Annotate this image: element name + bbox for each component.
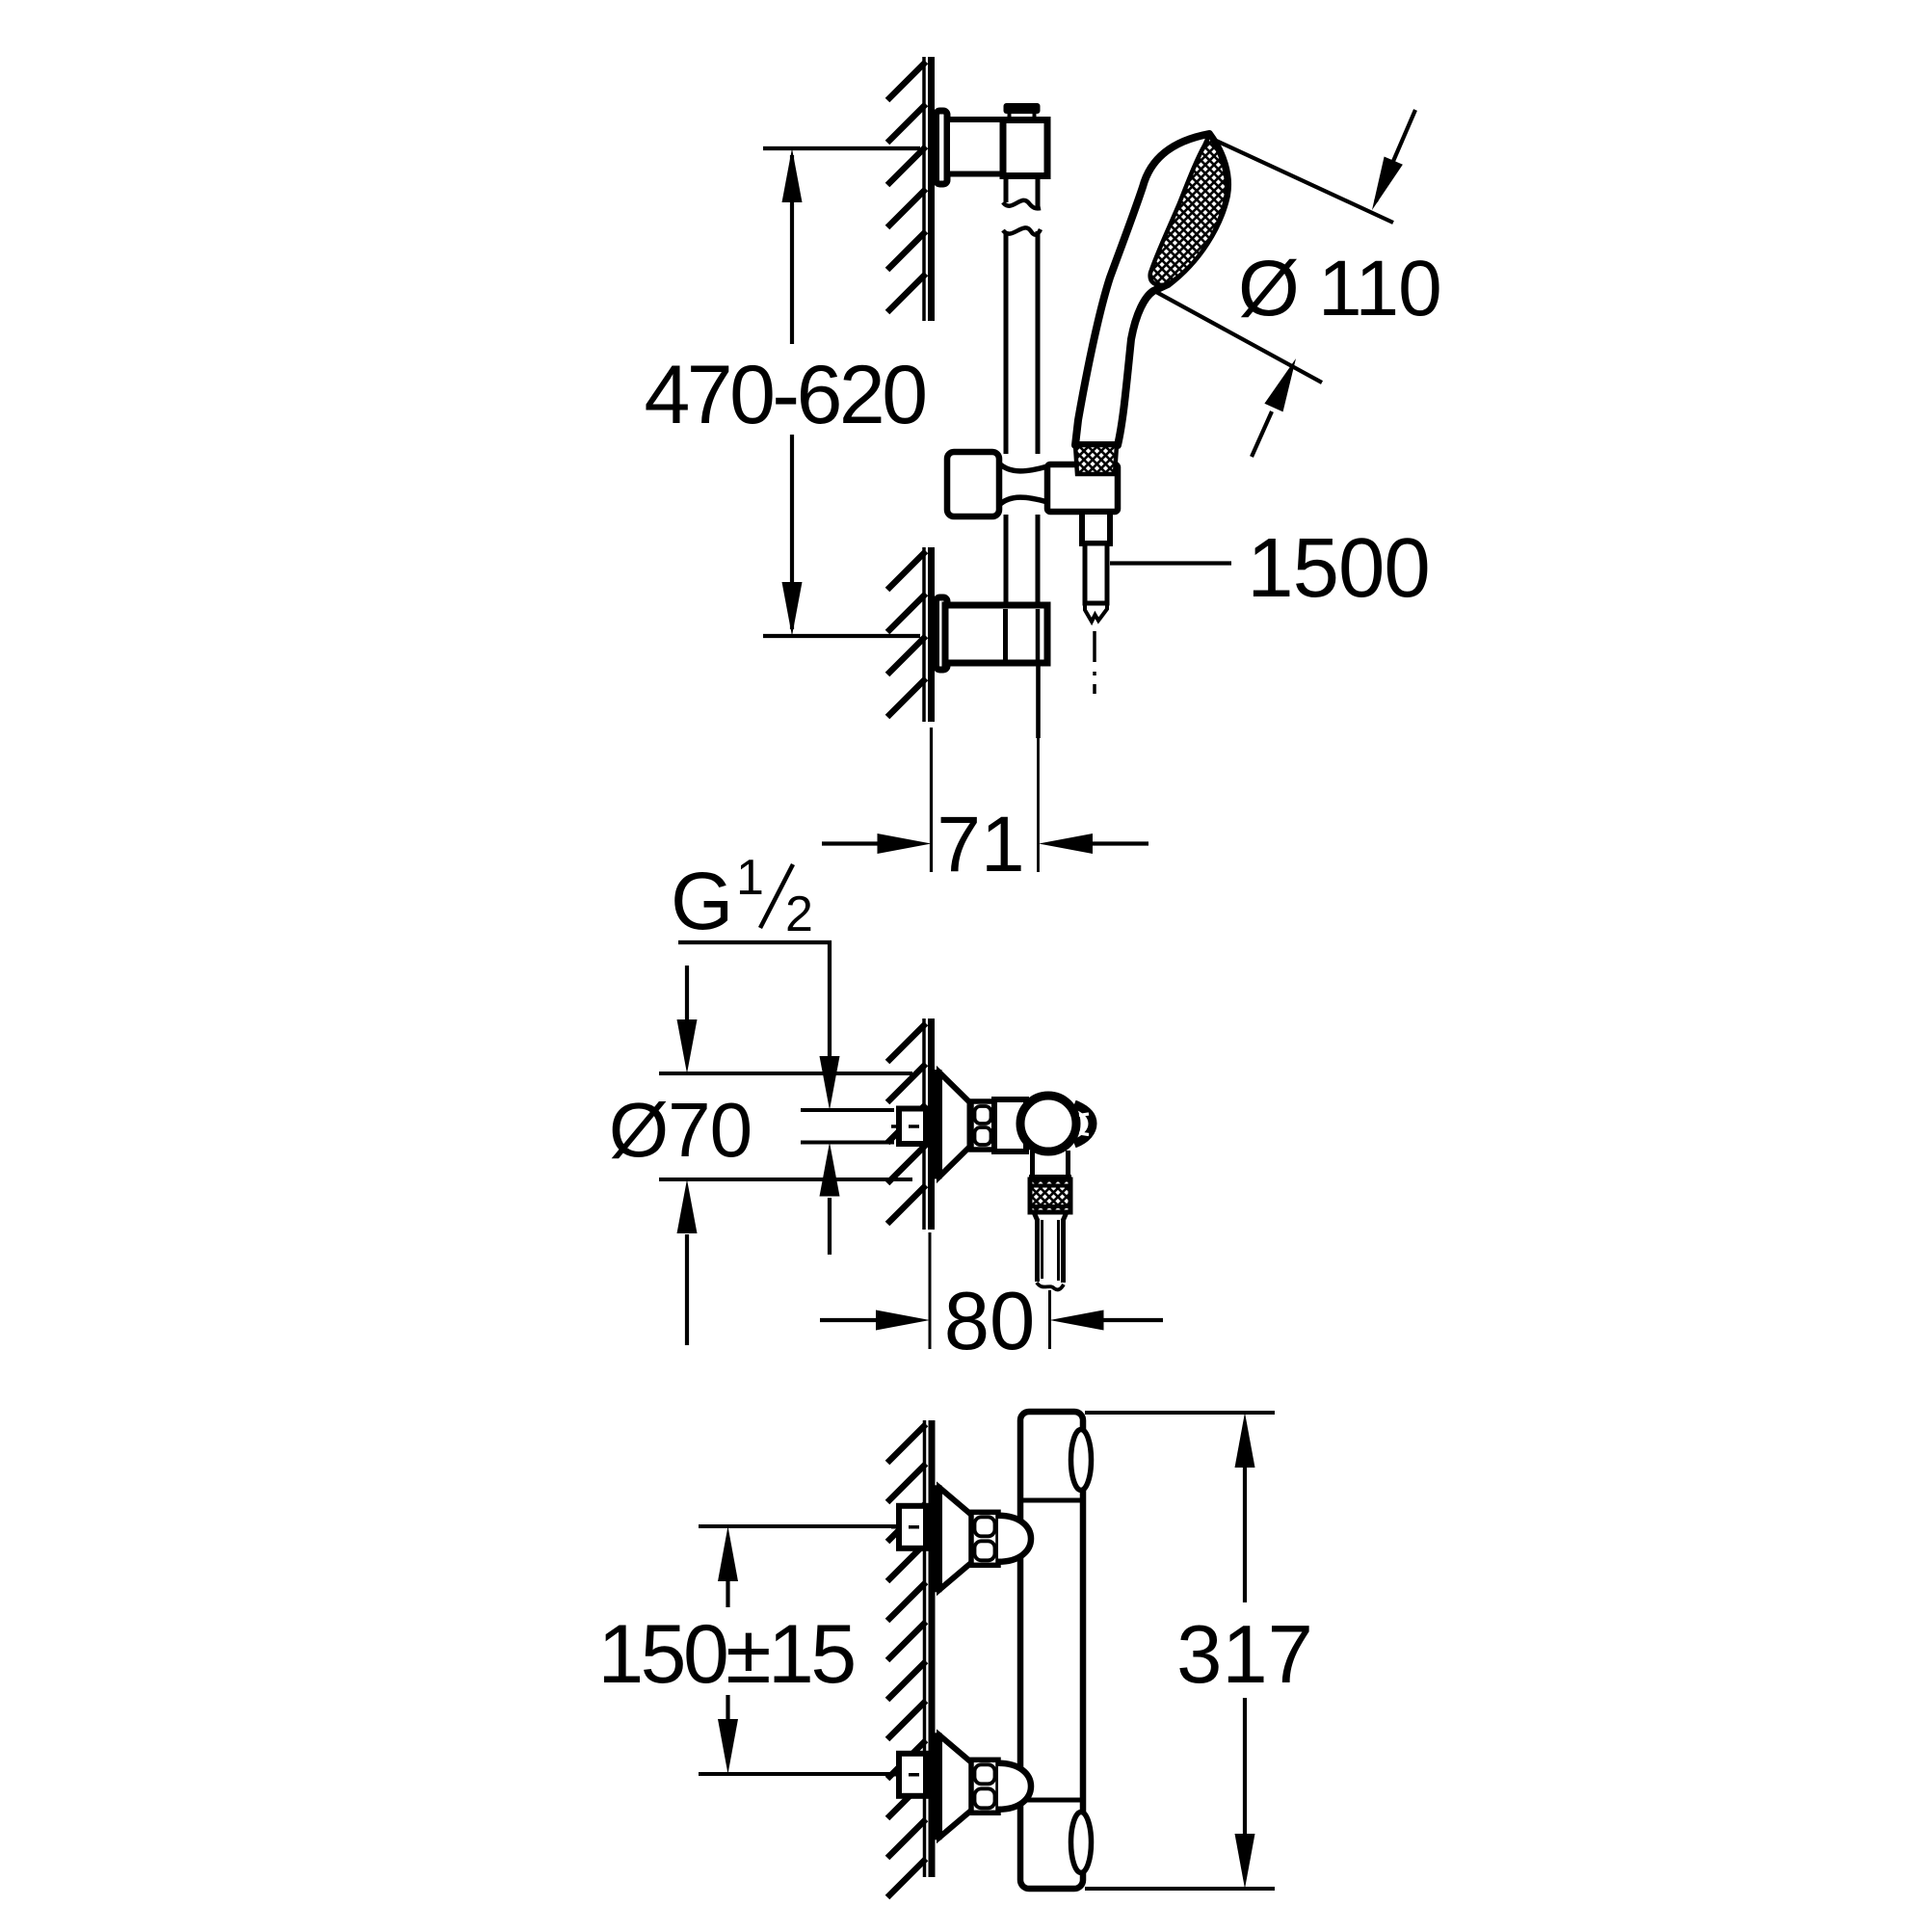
dim 150 extension line bottom — [699, 1772, 896, 1776]
valve body (side view) — [994, 1099, 1026, 1151]
rail tube lower end — [1036, 661, 1041, 738]
svg-text:150±15: 150±15 — [597, 1608, 854, 1701]
dimension text 317 — [1176, 1609, 1313, 1701]
thermostat body top cap line — [1020, 1498, 1083, 1503]
rail tube segment below clamp — [1003, 176, 1041, 209]
supply connection top (front view) — [891, 1488, 1031, 1590]
dim 150 arrow up — [718, 1526, 738, 1607]
dim 150 arrow down — [718, 1695, 738, 1774]
slider holder knob — [947, 452, 999, 516]
svg-text:470-620: 470-620 — [644, 349, 925, 441]
lower bracket body — [945, 605, 1047, 663]
dimension 470-620 dimension line lower — [790, 435, 794, 629]
dim 70 arrow upper — [677, 966, 698, 1073]
top bracket arm — [947, 119, 1004, 174]
body cap ellipse top — [1071, 1430, 1092, 1491]
wall hatching (front view) — [887, 1424, 926, 1897]
svg-text:317: 317 — [1176, 1609, 1313, 1701]
thermostat body bottom cap line — [1020, 1798, 1083, 1803]
hose connector broken end — [1085, 603, 1107, 622]
dim 70 arrow lower — [677, 1179, 698, 1345]
hose nut knurled (side view) — [1030, 1179, 1070, 1212]
dim 71 dimension line left — [822, 834, 932, 854]
G 1/2 leader arrow — [820, 1056, 840, 1110]
dimension text diameter 70 — [609, 1087, 752, 1173]
hand shower body outline — [1075, 134, 1227, 445]
dim 110 arrow upper — [1372, 110, 1415, 210]
wall (top view, upper) — [924, 57, 932, 321]
dim 71 extension line left — [930, 728, 933, 872]
rail end extension line — [1037, 738, 1040, 872]
hand shower spray face band — [1150, 135, 1227, 285]
label G 1/2 — [671, 850, 813, 946]
valve escutcheon plate (side view) — [935, 1072, 940, 1178]
nipple arrow up — [820, 1143, 840, 1256]
dim 317 extension line bottom — [1085, 1887, 1275, 1891]
lower bracket escutcheon — [937, 597, 948, 670]
svg-text:110: 110 — [1318, 245, 1441, 332]
svg-text:71: 71 — [937, 801, 1024, 888]
hose (side view) — [1034, 1212, 1067, 1289]
supply nipple thread center line — [891, 1125, 924, 1128]
hose connector upper — [1082, 512, 1110, 543]
dim 110 extension line upper — [1212, 139, 1393, 223]
leader line 1500 — [1110, 561, 1231, 565]
dim 317 arrow up — [1235, 1413, 1255, 1468]
clamp knob — [1004, 103, 1041, 120]
dimension 470-620 extension line bottom — [763, 634, 920, 638]
rail break gap second wavy edge — [1003, 227, 1041, 234]
dimension text 470-620 — [644, 349, 925, 441]
wall hatching (top view, lower) — [887, 551, 926, 717]
G 1/2 leader line — [678, 942, 830, 1056]
supply nipple extension lines (side view) — [801, 1110, 894, 1143]
dimension text 1500 — [1247, 521, 1430, 615]
svg-text:2: 2 — [785, 887, 813, 942]
valve union nut (side view) — [971, 1101, 994, 1150]
handle grip (side view) — [1074, 1104, 1093, 1144]
slider holder middle — [999, 463, 1047, 505]
hose center line (dash-dot) — [1093, 631, 1096, 694]
svg-text:Ø70: Ø70 — [609, 1087, 752, 1173]
wall (side view) — [924, 1019, 932, 1230]
wall hatching (top view, upper) — [887, 62, 926, 312]
dim 317 arrow down — [1235, 1834, 1255, 1889]
wall hatching (side view) — [887, 1023, 926, 1224]
hose connector lower — [1085, 543, 1107, 603]
supply nipple hex (side view) — [899, 1109, 926, 1145]
thermostat handle ring (side view) — [1020, 1096, 1076, 1151]
dim 80 hose center extension line — [1048, 1290, 1051, 1349]
rail clamp (top) — [1003, 120, 1047, 176]
svg-text:80: 80 — [944, 1276, 1036, 1367]
rail tube middle segment — [1006, 515, 1038, 608]
dim 70 extension line upper — [659, 1072, 912, 1075]
dim 80 left arrow — [820, 1310, 930, 1331]
dimension 470-620 arrow up — [782, 148, 803, 202]
dimension text 150 pm 15 — [597, 1608, 854, 1701]
dim 150 extension line top — [699, 1524, 896, 1528]
wall (top view, lower) — [924, 547, 932, 722]
dimension text diameter 110 — [1238, 245, 1441, 332]
thermostat body (front view) — [1020, 1412, 1083, 1889]
dim 80 right arrow — [1050, 1310, 1164, 1331]
body cap ellipse bottom — [1071, 1813, 1092, 1873]
slider holder cradle — [1047, 464, 1118, 512]
svg-text:1500: 1500 — [1247, 521, 1430, 615]
dimension 470-620 arrow down — [782, 582, 803, 636]
dim 317 extension line top — [1085, 1411, 1275, 1415]
dimension text 71 — [937, 801, 1024, 888]
hand shower handle knurl band — [1075, 445, 1117, 474]
dim 80 wall extension line — [929, 1232, 932, 1349]
top bracket escutcheon — [937, 111, 948, 184]
outlet neck (side view) — [1029, 1151, 1071, 1178]
dim 71 dimension line right — [1039, 834, 1148, 854]
svg-text:Ø: Ø — [1238, 245, 1300, 332]
dim 317 dimension line — [1243, 1465, 1247, 1837]
dimension 470-620 extension line top — [763, 146, 920, 150]
svg-text:1: 1 — [736, 850, 764, 906]
rail tube upper segment — [1006, 231, 1038, 454]
valve escutcheon cone (side view) — [939, 1072, 970, 1177]
dim 110 extension line lower — [1156, 292, 1322, 383]
dim 110 arrow lower — [1252, 358, 1296, 457]
supply connection bottom (front view) — [891, 1735, 1031, 1838]
dimension 470-620 dimension line upper — [790, 155, 794, 344]
dimension text 80 — [944, 1276, 1036, 1367]
wall (front view) — [925, 1420, 933, 1877]
svg-text:G: G — [671, 856, 733, 946]
dim 70 extension line lower — [659, 1178, 912, 1181]
lower bracket rail lines — [1006, 609, 1039, 660]
